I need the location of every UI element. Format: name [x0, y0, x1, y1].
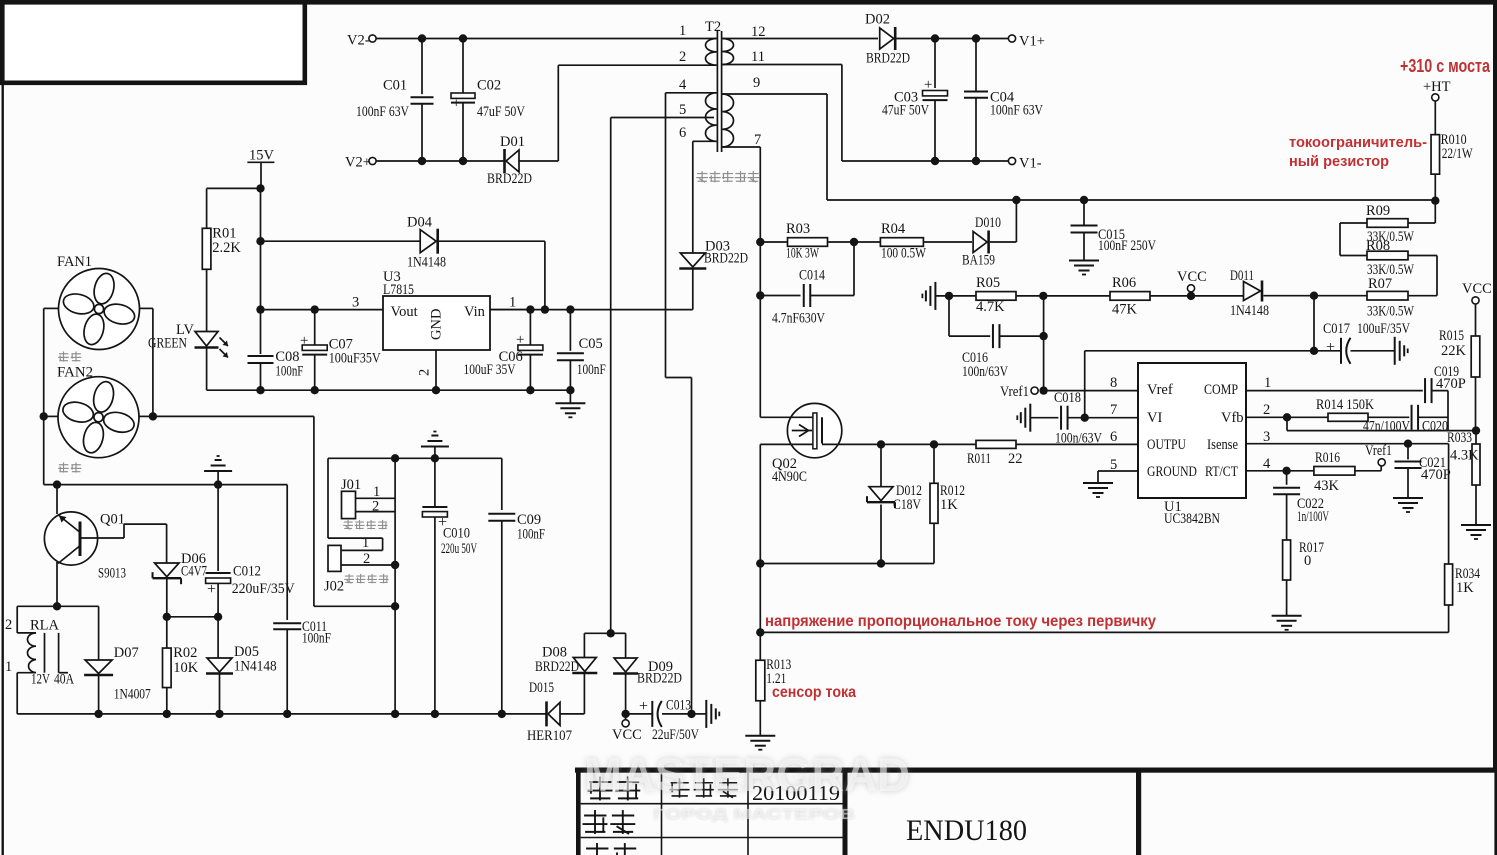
- ground R017 ground: [1272, 616, 1302, 630]
- svg-text:C017: C017: [1323, 321, 1350, 337]
- wire to chassis: [693, 713, 707, 715]
- wire aux DC line: [490, 309, 693, 311]
- svg-text:2: 2: [5, 617, 12, 633]
- junction D011 node: [1310, 292, 1318, 300]
- connector J02: [328, 545, 341, 571]
- diode D02: [880, 27, 896, 50]
- relay RLA coil: [28, 633, 36, 673]
- svg-text:S9013: S9013: [98, 566, 126, 582]
- fan FAN2: [58, 377, 139, 458]
- svg-text:470P: 470P: [1436, 376, 1466, 392]
- wire C03 bottom lead: [934, 100, 936, 161]
- svg-text:RT/CT: RT/CT: [1205, 464, 1238, 480]
- svg-text:10K 3W: 10K 3W: [786, 246, 819, 262]
- top border bar: [0, 0, 1497, 5]
- wire R06 right: [1150, 295, 1244, 297]
- terminal VCC right terminal: [1472, 297, 1479, 304]
- wire ground bus: [17, 713, 546, 715]
- IC U3 body: [383, 296, 490, 350]
- svg-text:5: 5: [679, 102, 686, 118]
- wire R010 node down: [1434, 200, 1436, 223]
- svg-text:Vref1: Vref1: [1365, 443, 1392, 459]
- wire C04 top lead: [975, 39, 977, 92]
- svg-text:+: +: [639, 698, 648, 715]
- svg-text:MASTERGRAD: MASTERGRAD: [584, 748, 910, 801]
- wire 15V stem: [260, 162, 262, 188]
- wire D07 bottom lead: [98, 676, 100, 714]
- wire J01 pin1: [356, 497, 396, 499]
- svg-text:R05: R05: [976, 275, 1000, 291]
- wire Q01 base h2: [124, 523, 167, 525]
- wire R015 top lead: [1475, 304, 1477, 336]
- capacitor C013: [652, 701, 662, 727]
- chassis ground R05 chassis: [922, 282, 935, 310]
- wire Q01 base h: [82, 537, 125, 539]
- wire U3 GND lead: [435, 350, 437, 390]
- svg-text:100nF 63V: 100nF 63V: [990, 103, 1043, 119]
- wire D01 to pin2 riser: [519, 160, 558, 162]
- wire sense v: [759, 564, 761, 661]
- wire gate wire: [760, 416, 813, 418]
- wire C02 top lead: [462, 39, 464, 94]
- wire mid gnd stem: [434, 447, 436, 459]
- text liujizhou: [669, 778, 738, 797]
- text aux transformer caption: [696, 171, 759, 182]
- wire R01 to LED: [206, 269, 208, 331]
- svg-text:D04: D04: [407, 215, 433, 231]
- wire R04 to D010: [923, 241, 972, 243]
- wire R09 left lead: [1340, 222, 1367, 224]
- junction pin4 node: [1282, 467, 1290, 475]
- junction bus C010: [431, 710, 439, 718]
- wire pin2 riser: [557, 65, 559, 161]
- svg-text:BA159: BA159: [962, 253, 995, 269]
- junction C012 top node: [214, 480, 222, 488]
- wire R02-C012 link: [167, 616, 218, 618]
- wire Vin-C06 node a: [490, 309, 530, 311]
- svg-text:C013: C013: [666, 698, 691, 714]
- wire D04 left lead: [261, 240, 420, 242]
- text J02 caption: [344, 574, 388, 583]
- wire Q01 emitter v: [56, 485, 58, 514]
- svg-text:2: 2: [372, 499, 379, 515]
- wire x260 v1: [260, 188, 262, 241]
- svg-text:D010: D010: [975, 215, 1001, 231]
- title col line 2: [747, 773, 749, 855]
- svg-text:T2: T2: [705, 19, 721, 35]
- svg-text:V2-: V2-: [347, 33, 370, 49]
- wire relay h: [17, 605, 98, 607]
- svg-text:D015: D015: [529, 680, 554, 696]
- svg-text:47K: 47K: [1112, 302, 1138, 318]
- wire T2 pin9 h: [723, 93, 828, 95]
- svg-text:220u 50V: 220u 50V: [441, 541, 477, 557]
- wire Q02 right out: [822, 443, 976, 445]
- svg-text:R04: R04: [881, 221, 906, 237]
- ground C021 ground: [1393, 498, 1423, 512]
- junction R05 left node: [945, 292, 953, 300]
- junction VCC node: [621, 710, 629, 718]
- svg-text:9: 9: [753, 75, 760, 91]
- svg-text:C01: C01: [383, 78, 407, 94]
- wire chassis to R05: [935, 295, 975, 297]
- svg-text:1N4148: 1N4148: [234, 659, 277, 675]
- svg-text:V1+: V1+: [1019, 34, 1045, 50]
- svg-text:Vout: Vout: [391, 304, 418, 320]
- svg-text:4.7nF630V: 4.7nF630V: [772, 311, 825, 327]
- wire T2 pin4 h: [666, 92, 717, 94]
- terminal Vref1 terminal b: [1378, 459, 1385, 466]
- resistor R014: [1328, 413, 1368, 421]
- fan FAN1: [59, 269, 140, 350]
- svg-text:1K: 1K: [940, 497, 958, 513]
- title block top border: [575, 768, 1497, 773]
- wire R02 bottom lead: [166, 688, 168, 714]
- capacitor C06: [518, 345, 543, 355]
- svg-text:OUTPU: OUTPU: [1147, 437, 1186, 453]
- wire C011 bottom: [286, 629, 288, 714]
- junction pin4 gnd node: [687, 710, 695, 718]
- wire J02 pin1 h: [341, 549, 383, 551]
- LED LV: [195, 332, 229, 358]
- wire R012 top lead: [933, 444, 935, 483]
- svg-text:L7815: L7815: [383, 282, 414, 298]
- wire T2 pin5 v: [610, 118, 612, 634]
- junction rail U3GND: [432, 386, 440, 394]
- wire fans right v: [152, 308, 154, 416]
- text fan2 caption: [58, 462, 81, 472]
- resistor R012: [930, 483, 938, 523]
- resistor R08: [1367, 251, 1408, 260]
- svg-text:10K: 10K: [173, 660, 199, 676]
- resistor R02: [163, 648, 172, 688]
- svg-text:2: 2: [1263, 402, 1270, 418]
- wire C021 gnd lead: [1407, 468, 1409, 498]
- junction C010 rail node: [431, 454, 439, 462]
- wire sense rail: [760, 631, 1448, 633]
- svg-text:+HT: +HT: [1423, 79, 1451, 95]
- svg-text:R016: R016: [1315, 450, 1340, 466]
- wire D012 top lead: [880, 444, 882, 486]
- terminal V2-: [369, 35, 376, 42]
- capacitor C05: [557, 353, 584, 360]
- wire T2 pin12 h: [723, 38, 879, 40]
- capacitor C016: [993, 324, 1000, 348]
- capacitor C09: [488, 514, 515, 521]
- resistor R034: [1445, 564, 1453, 605]
- wire relay left v1: [16, 606, 18, 633]
- zener D012: [867, 487, 895, 509]
- resistor R03: [788, 238, 828, 247]
- svg-text:15V: 15V: [249, 148, 275, 164]
- wire pin2 horizontal: [558, 64, 716, 66]
- svg-text:1N4007: 1N4007: [114, 687, 151, 703]
- svg-text:100nF 63V: 100nF 63V: [356, 104, 409, 120]
- wire R05 right: [1016, 295, 1110, 297]
- svg-text:1: 1: [362, 535, 369, 551]
- svg-text:Vin: Vin: [464, 304, 486, 320]
- wire C018 right: [1068, 417, 1138, 419]
- wire C016 left v: [948, 296, 950, 336]
- chassis ground C018 chassis: [1017, 404, 1030, 432]
- wire LED bottom lead: [206, 348, 208, 390]
- svg-text:1: 1: [5, 659, 12, 675]
- mosfet Q02: [787, 403, 841, 457]
- wire pin4 wire: [1246, 470, 1314, 472]
- svg-text:6: 6: [679, 125, 686, 141]
- svg-text:1N4148: 1N4148: [407, 255, 446, 271]
- svg-text:ный резистор: ный резистор: [1289, 153, 1389, 170]
- svg-text:100n/63V: 100n/63V: [962, 364, 1008, 380]
- wire Q02 lower left: [760, 443, 813, 445]
- svg-text:GND: GND: [429, 309, 445, 340]
- junction bus D07: [94, 710, 102, 718]
- wire C021 stem: [1407, 444, 1409, 460]
- svg-text:4.7K: 4.7K: [976, 299, 1005, 315]
- junction bus D05: [215, 710, 223, 718]
- junction J01 rail node: [391, 454, 399, 462]
- junction R03-R04 node: [850, 238, 858, 246]
- zener D06: [153, 563, 182, 584]
- junction FAN2 left node: [40, 412, 48, 420]
- wire GND rail U3: [207, 389, 571, 391]
- wire R01 branch h: [207, 187, 261, 189]
- svg-text:R08: R08: [1366, 238, 1390, 254]
- junction R05 right node: [1039, 292, 1047, 300]
- wire T2 pin4 v: [665, 93, 667, 378]
- text huizhi: [583, 810, 636, 834]
- revision box top-left: [2, 2, 305, 83]
- wire relay coil bottom h: [17, 672, 36, 674]
- svg-text:R015: R015: [1439, 328, 1464, 344]
- ground U1 ground: [1083, 483, 1113, 497]
- wire VI feed: [1085, 350, 1341, 352]
- svg-text:43K: 43K: [1314, 478, 1340, 494]
- wire R033 bottom lead: [1475, 485, 1477, 525]
- wire fans to J0x: [153, 415, 314, 417]
- capacitor C020: [1412, 405, 1419, 430]
- capacitor C022: [1273, 488, 1300, 495]
- svg-text:ГОРОД МАСТЕРОВ: ГОРОД МАСТЕРОВ: [653, 806, 855, 823]
- wire D08 branch h: [584, 632, 610, 634]
- svg-text:8: 8: [1110, 375, 1117, 391]
- wire C08 bottom: [260, 363, 262, 390]
- connector J01: [342, 491, 356, 518]
- svg-text:D02: D02: [865, 12, 890, 28]
- winding T2 primary 1-2: [706, 39, 717, 66]
- svg-text:100uF 35V: 100uF 35V: [464, 362, 516, 378]
- wire pin9 v: [826, 94, 828, 200]
- wire T2 pin4 jog: [666, 377, 692, 379]
- svg-text:3: 3: [1263, 429, 1270, 445]
- wire base to D06: [166, 524, 168, 563]
- junction C01 bottom: [418, 157, 426, 165]
- ground R033 ground: [1461, 525, 1491, 539]
- junction Vref1 node: [1039, 386, 1047, 394]
- wire Vref riser: [1043, 296, 1045, 391]
- title block divider 2: [1136, 768, 1141, 855]
- svg-text:GROUND: GROUND: [1147, 464, 1197, 480]
- junction C014 node: [756, 291, 764, 299]
- wire Vout line: [261, 309, 384, 311]
- transistor Q01: [44, 512, 97, 565]
- terminal Vref1 terminal a: [1031, 387, 1038, 394]
- wire C019 right: [1432, 390, 1449, 392]
- diode D03: [679, 253, 706, 269]
- junction C02 bottom: [459, 157, 467, 165]
- svg-text:C018: C018: [1054, 390, 1081, 406]
- svg-text:BRD22D: BRD22D: [535, 659, 579, 675]
- wire V2+ rail: [376, 160, 504, 162]
- svg-text:C18V: C18V: [893, 497, 921, 513]
- svg-text:D07: D07: [114, 645, 139, 661]
- capacitor C04: [964, 92, 988, 98]
- svg-text:сенсор тока: сенсор тока: [772, 684, 856, 701]
- resistor R06: [1110, 292, 1150, 301]
- junction relay node: [53, 602, 61, 610]
- capacitor C015: [1071, 226, 1098, 233]
- wire FAN1 left lead: [44, 307, 59, 309]
- wire D011 out: [1264, 295, 1315, 297]
- diode D015: [547, 701, 561, 726]
- text jiaodui: [585, 843, 638, 855]
- wire C014 right lead: [810, 295, 854, 297]
- wire C08 stem: [260, 310, 262, 354]
- wire D06 bottom: [166, 579, 168, 617]
- svg-text:V2+: V2+: [345, 155, 371, 171]
- svg-text:VI: VI: [1147, 410, 1162, 426]
- junction bus J: [391, 710, 399, 718]
- svg-text:+: +: [1326, 339, 1335, 356]
- wire D012 bottom lead: [880, 505, 882, 564]
- junction C08 top node: [256, 305, 264, 313]
- svg-text:1K: 1K: [1456, 580, 1474, 596]
- wire V2- to T2 pin1: [376, 38, 716, 40]
- wire R017 bottom: [1286, 580, 1288, 616]
- wire R010 to rail: [1434, 174, 1436, 200]
- junction rail C08: [256, 386, 264, 394]
- wire D02 to V1+: [897, 38, 1009, 40]
- resistor R016: [1314, 467, 1355, 476]
- wire C04 bottom lead: [975, 98, 977, 161]
- diode D08: [572, 658, 597, 674]
- svg-text:R033: R033: [1447, 430, 1472, 446]
- wire V1- rail: [842, 160, 1009, 162]
- wire D09 bottom lead: [625, 674, 627, 714]
- capacitor C03: [923, 91, 948, 101]
- resistor R09: [1367, 219, 1408, 228]
- junction C01 top: [418, 34, 426, 42]
- wire FAN2 right lead: [139, 415, 153, 417]
- resistor R07: [1367, 291, 1408, 300]
- title row line 2: [581, 837, 843, 839]
- svg-text:токоограничитель-: токоограничитель-: [1289, 134, 1427, 151]
- terminal VCC terminal: [622, 720, 629, 727]
- wire D011 node v: [1313, 296, 1315, 351]
- svg-text:FAN1: FAN1: [57, 254, 92, 270]
- svg-text:D011: D011: [1230, 268, 1254, 284]
- resistor R013: [756, 660, 765, 701]
- junction D04 node: [256, 237, 264, 245]
- wire Q02 source v: [759, 444, 761, 563]
- svg-text:R06: R06: [1112, 275, 1136, 291]
- junction C017 node: [1310, 347, 1318, 355]
- terminal V1+: [1008, 35, 1015, 42]
- wire D05 bottom lead: [219, 674, 221, 714]
- svg-text:BRD22D: BRD22D: [704, 251, 748, 267]
- wire R02 top lead: [166, 617, 168, 648]
- svg-text:1n/100V: 1n/100V: [1297, 509, 1329, 525]
- right sheet border: [1493, 0, 1497, 772]
- wire C012 bottom: [217, 584, 219, 617]
- svg-text:VCC: VCC: [612, 727, 642, 743]
- wire VI riser: [1084, 351, 1086, 418]
- ground R013 ground: [745, 736, 775, 750]
- ground mid ground: [421, 432, 449, 447]
- wire emitter rail: [44, 484, 288, 486]
- junction bus C09: [498, 710, 506, 718]
- wire C07 stem: [314, 310, 316, 345]
- wire R08 right lead: [1408, 255, 1437, 257]
- wire R012 bottom lead: [933, 523, 935, 563]
- svg-text:12V: 12V: [31, 672, 50, 688]
- junction R015 node: [1472, 426, 1480, 434]
- wire J v: [394, 458, 396, 714]
- title col line 1: [661, 773, 663, 855]
- svg-text:47uF 50V: 47uF 50V: [882, 103, 929, 119]
- svg-text:RLA: RLA: [30, 618, 60, 634]
- wire C09 stem: [501, 458, 503, 510]
- svg-text:BRD22D: BRD22D: [637, 671, 682, 687]
- svg-text:100uF35V: 100uF35V: [329, 351, 381, 367]
- svg-text:100uF/35V: 100uF/35V: [1357, 321, 1410, 337]
- capacitor C011: [273, 623, 301, 629]
- svg-text:40A: 40A: [54, 672, 74, 688]
- junction J02 pin2 node: [391, 561, 399, 569]
- wire D05 top lead: [217, 617, 219, 658]
- junction D08-D09 node: [607, 629, 615, 637]
- terminal V1-: [1008, 157, 1015, 164]
- wire Vref1 b stem: [1380, 466, 1382, 471]
- title row line 1: [581, 803, 843, 805]
- terminal V2+: [369, 157, 376, 164]
- wire C09 bottom: [501, 521, 503, 714]
- resistor R033: [1472, 444, 1480, 485]
- svg-text:1: 1: [509, 295, 516, 311]
- svg-text:R011: R011: [967, 451, 991, 467]
- svg-text:1: 1: [679, 23, 686, 39]
- wire Q01 rail ground stem: [217, 471, 219, 485]
- wire J rail: [328, 457, 502, 459]
- wire C015 stem: [1083, 200, 1085, 226]
- wire D010 out: [990, 241, 1016, 243]
- svg-text:Q01: Q01: [100, 512, 125, 528]
- wire pin1 wire: [1246, 390, 1423, 392]
- svg-text:7: 7: [754, 132, 761, 148]
- resistor R05: [976, 292, 1016, 301]
- wire fan drop v: [313, 416, 315, 606]
- junction C02 top: [459, 34, 467, 42]
- wire D08 branch v: [583, 633, 585, 657]
- svg-text:Vfb: Vfb: [1221, 410, 1244, 426]
- wire C01 bottom lead: [421, 104, 423, 161]
- svg-text:6: 6: [1110, 429, 1117, 445]
- svg-text:1: 1: [1264, 375, 1271, 391]
- wire x260 v2: [260, 241, 262, 309]
- wire D04 drop v: [544, 241, 546, 309]
- resistor R011: [976, 440, 1016, 448]
- capacitor C014: [804, 284, 811, 307]
